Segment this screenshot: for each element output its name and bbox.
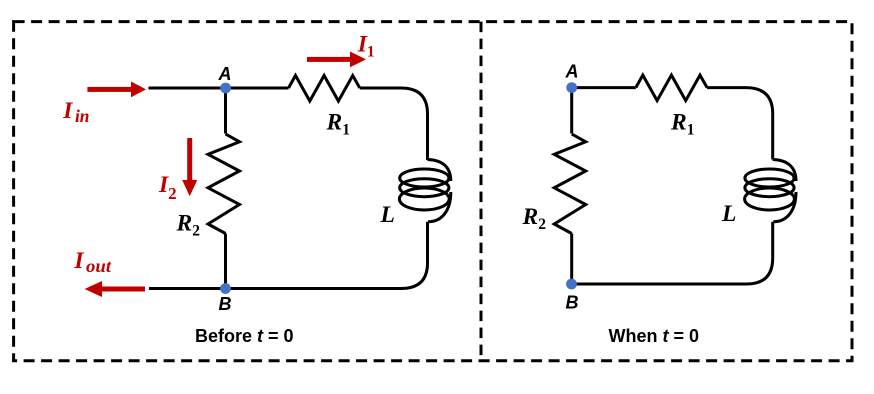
- wire: inductor bottom to bottom-right corner to node B (right panel): [572, 222, 773, 284]
- svg-text:A: A: [218, 64, 232, 84]
- current arrow I_out: [85, 281, 145, 297]
- wire: node A down to R2 (right panel): [570, 88, 573, 134]
- current arrow I_in: [87, 82, 146, 98]
- current arrow I_2: [182, 138, 197, 196]
- resistor R1 (left panel): [289, 76, 360, 102]
- svg-text:B: B: [219, 294, 232, 314]
- inductor L (right panel): [745, 160, 796, 222]
- panel divider dashed line: [480, 22, 483, 361]
- wire: R1 to top-right corner down to inductor: [360, 88, 428, 160]
- svg-text:Iout: Iout: [73, 248, 112, 276]
- resistor R2 (left panel): [208, 134, 240, 234]
- resistor R2 (right panel): [554, 134, 586, 234]
- svg-text:A: A: [565, 62, 579, 82]
- wire: node A down to R2: [224, 88, 227, 134]
- node A (right panel): [566, 82, 577, 93]
- resistor R1 (right panel): [636, 75, 707, 101]
- wire: R2 to node B: [224, 234, 227, 289]
- node B (left panel): [220, 283, 231, 294]
- wire: R1 to top-right corner down to inductor (right panel): [707, 88, 773, 160]
- svg-text:I2: I2: [158, 172, 177, 203]
- svg-text:L: L: [380, 202, 395, 228]
- svg-text:R1: R1: [670, 110, 694, 139]
- svg-text:B: B: [566, 293, 579, 313]
- inductor L (left panel): [399, 160, 450, 222]
- wire: input to node A to R1 (top left wire): [149, 87, 289, 90]
- node A (left panel): [220, 83, 231, 94]
- svg-text:L: L: [721, 201, 736, 227]
- wire: node A to R1 (right top wire): [572, 86, 636, 89]
- svg-text:R2: R2: [176, 211, 201, 240]
- svg-text:When t = 0: When t = 0: [609, 326, 700, 346]
- svg-text:Before t = 0: Before t = 0: [195, 326, 294, 346]
- current arrow I_1: [307, 52, 366, 68]
- svg-text:R2: R2: [522, 204, 547, 233]
- wire: R2 to node B (right panel): [570, 234, 573, 285]
- svg-text:Iin: Iin: [62, 98, 89, 126]
- wire: inductor bottom to bottom-right corner to node B and output: [149, 222, 428, 289]
- svg-text:R1: R1: [326, 110, 350, 139]
- node B (right panel): [566, 279, 577, 290]
